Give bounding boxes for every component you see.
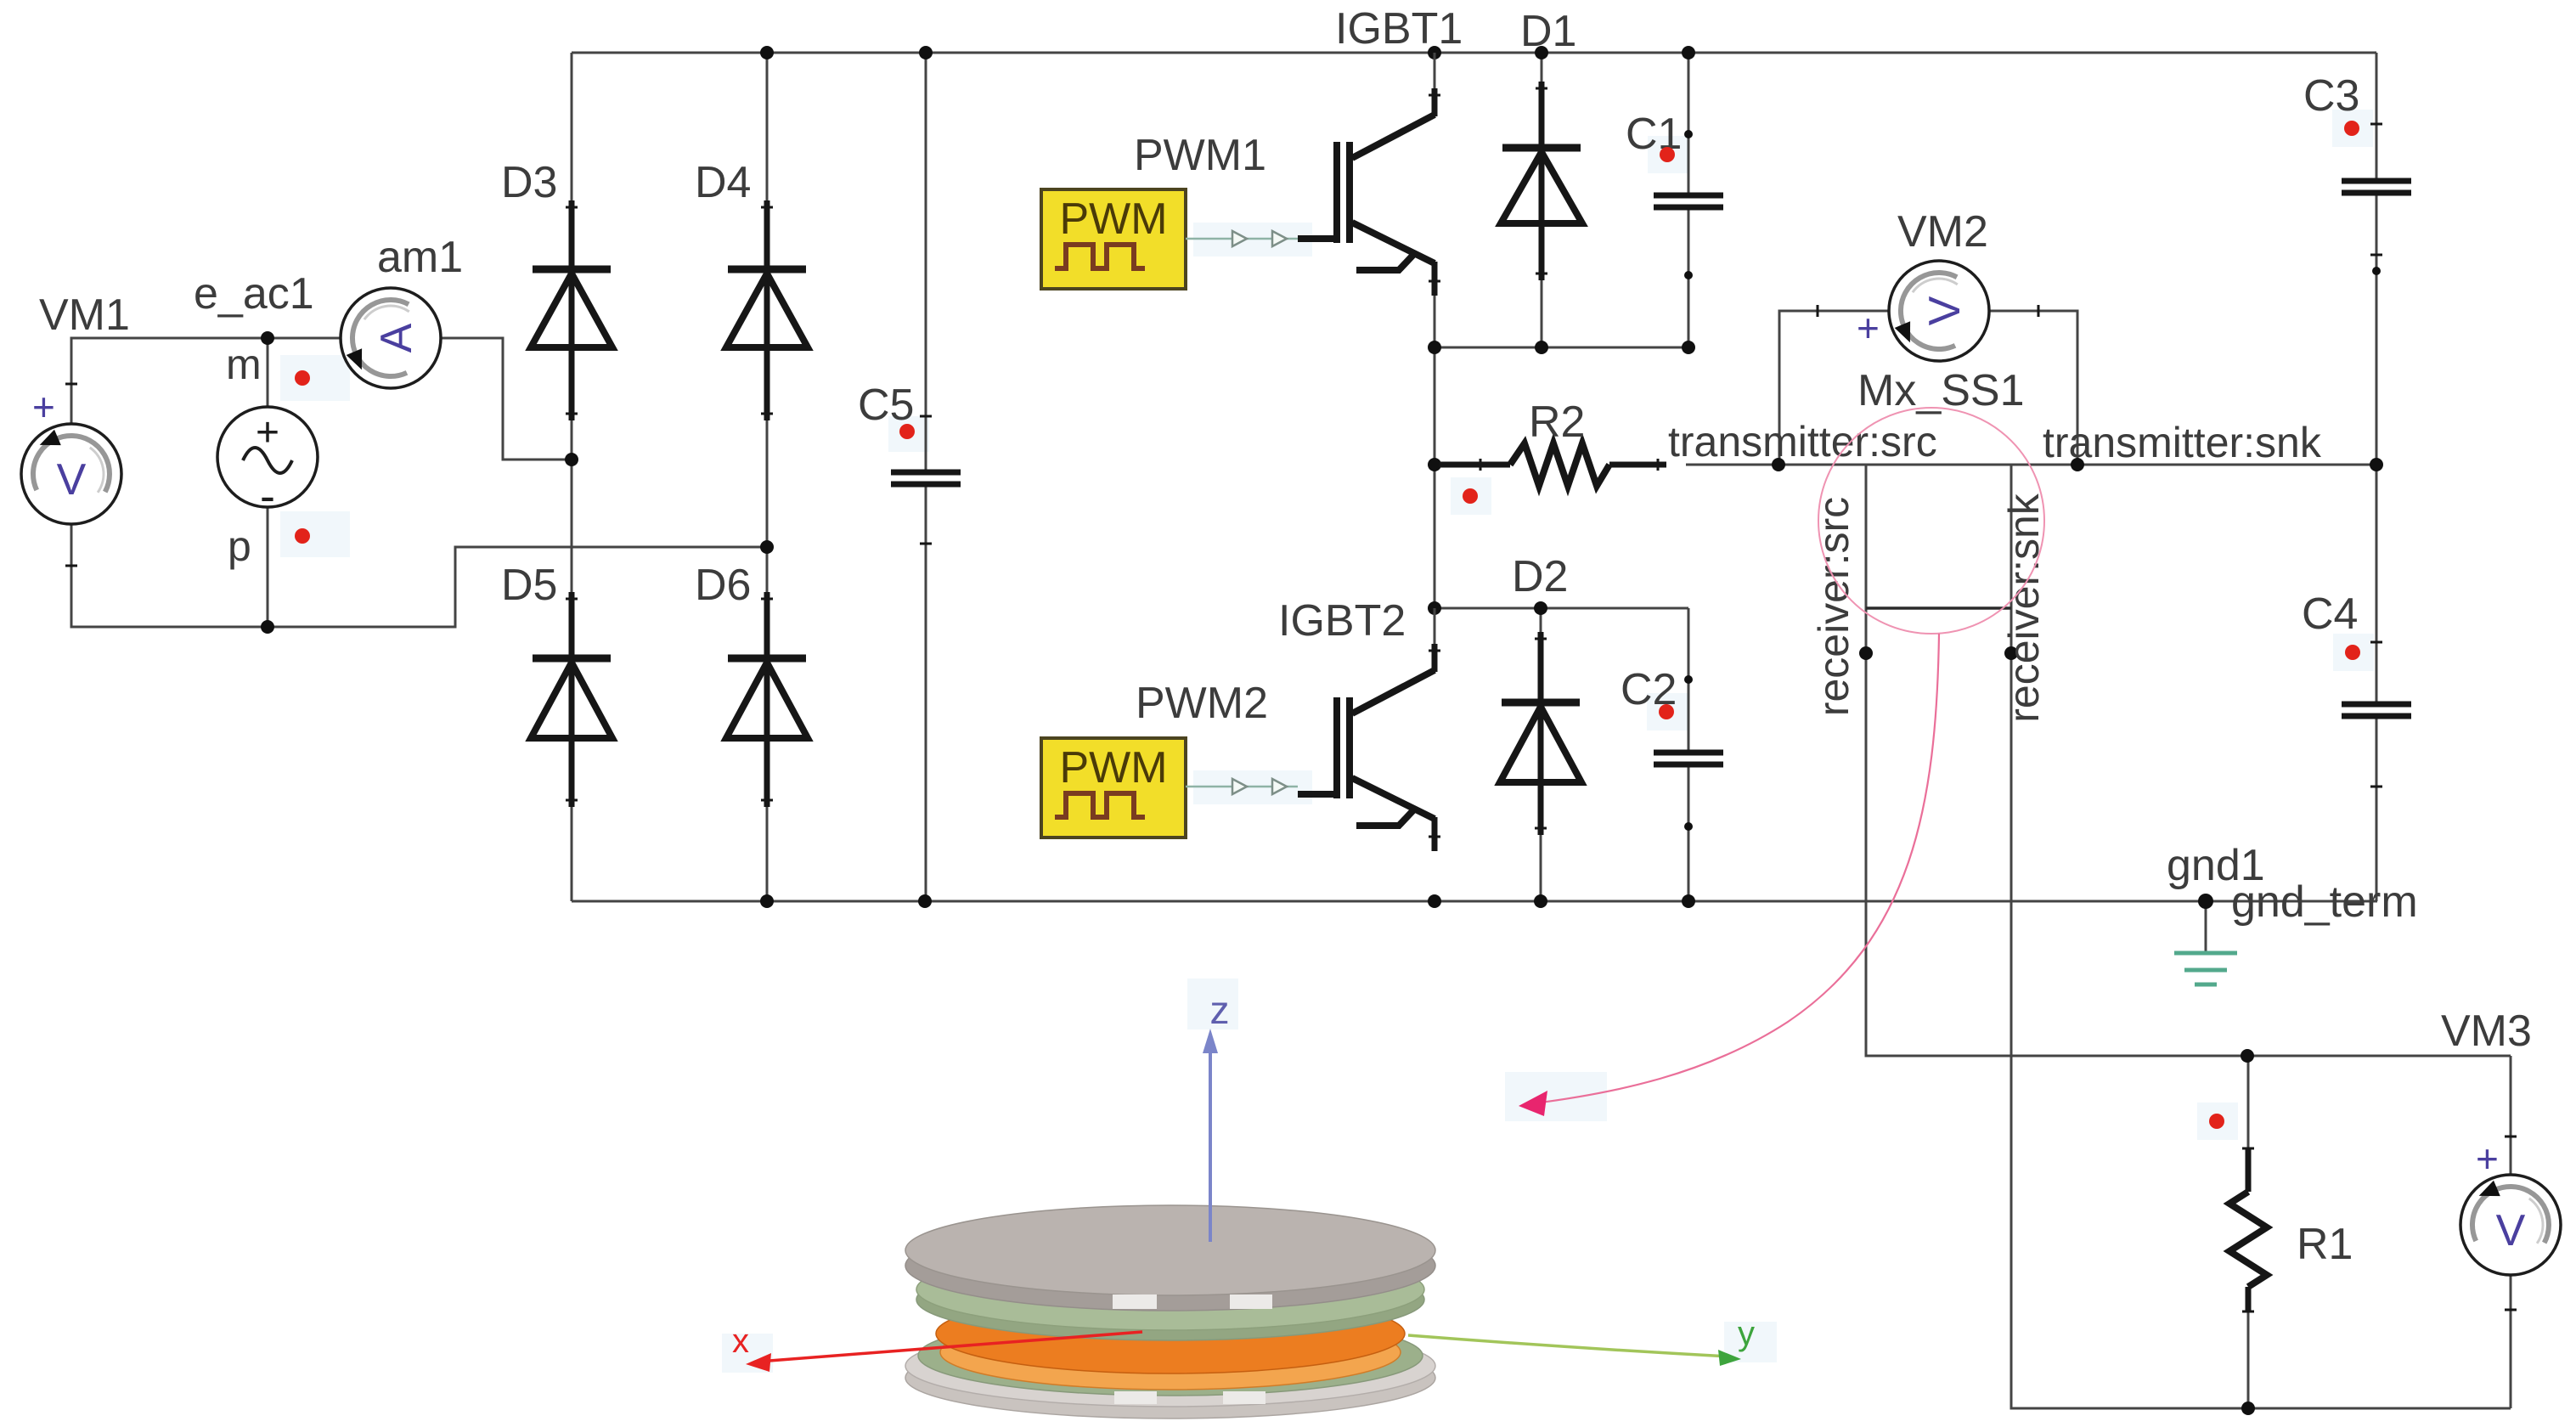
node R1 top — [2241, 1049, 2254, 1063]
node top bus / C1 — [1682, 46, 1695, 59]
coil lower green disc — [918, 1316, 1423, 1396]
z axis — [1209, 1048, 1212, 1242]
svg-text:IGBT2: IGBT2 — [1278, 596, 1406, 646]
wire VM2 left leg — [1779, 311, 1889, 465]
svg-text:VM1: VM1 — [39, 290, 130, 340]
svg-text:R2: R2 — [1529, 398, 1585, 447]
3D coil model: axes and disc stack — [732, 988, 1755, 1419]
x axis — [758, 1332, 1142, 1362]
diode D2 — [1500, 632, 1581, 835]
transistor IGBT1 — [1298, 53, 1440, 296]
node top bus / D1 — [1535, 46, 1548, 59]
meter VM2 — [1889, 261, 1989, 361]
coupling leader arrow to coil model — [1534, 634, 1939, 1103]
pin C4 red marker — [2345, 645, 2360, 660]
svg-text:am1: am1 — [377, 233, 463, 282]
node top bus / IGBT1 — [1428, 46, 1441, 59]
wire D1 branch — [1541, 53, 1543, 347]
svg-text:PWM: PWM — [1059, 195, 1167, 244]
wire R1 branch — [2247, 1056, 2250, 1189]
pin R2 red marker — [1463, 488, 1478, 504]
svg-text:D6: D6 — [695, 561, 751, 610]
wire PWM2 gate signal — [1186, 786, 1298, 788]
svg-text:PWM1: PWM1 — [1134, 131, 1266, 180]
node mid rail / D1 anode — [1535, 341, 1548, 354]
wire VM2 right leg — [1989, 311, 2077, 465]
svg-text:V: V — [57, 455, 87, 505]
svg-text:z: z — [1210, 988, 1230, 1032]
svg-text:VM2: VM2 — [1897, 207, 1988, 257]
resistor R2 — [1440, 443, 1666, 486]
wire gnd stem — [2205, 901, 2207, 951]
svg-text:D5: D5 — [501, 561, 557, 610]
node R2 left — [1428, 458, 1441, 471]
node bottom bus / D6 — [760, 894, 774, 908]
coil top grey disc — [905, 1221, 1435, 1311]
node bottom bus / IGBT2 emitter — [1428, 894, 1441, 908]
svg-text:y: y — [1738, 1315, 1755, 1352]
wire VM1 bottom — [71, 524, 268, 627]
wire D2 branch — [1540, 608, 1542, 901]
node m — [261, 331, 274, 345]
transistor IGBT2 — [1298, 608, 1440, 851]
svg-text:+: + — [2476, 1137, 2499, 1181]
diode D1 — [1501, 82, 1582, 280]
pin C2 red marker — [1659, 704, 1674, 719]
svg-text:C4: C4 — [2302, 589, 2358, 639]
coil bottom grey disc — [905, 1337, 1435, 1419]
svg-text:A: A — [372, 323, 421, 353]
node top bus / D4 — [760, 46, 774, 59]
svg-text:e_ac1: e_ac1 — [194, 269, 314, 319]
svg-text:D4: D4 — [695, 158, 751, 207]
highlight halos — [280, 355, 350, 401]
node gnd1 — [2198, 894, 2213, 909]
wire C4 branch — [2376, 465, 2378, 704]
capacitor C4 — [2342, 704, 2411, 716]
node bottom bus / C2 — [1682, 894, 1695, 908]
wire VM1 top — [71, 338, 268, 424]
svg-text:transmitter:src: transmitter:src — [1668, 418, 1937, 465]
wire am1 to bridge mid-left node — [441, 338, 572, 460]
svg-text:V: V — [2496, 1206, 2526, 1255]
node transmitter:src — [1772, 458, 1785, 471]
coil upper green disc — [916, 1259, 1424, 1340]
node bottom bus / D2 — [1534, 894, 1547, 908]
node mid rail / IGBT1 emitter — [1428, 341, 1441, 354]
wire C5 branch — [925, 53, 927, 472]
pin C1 red marker — [1660, 147, 1675, 162]
pin C5 red marker — [899, 424, 915, 439]
svg-text:p: p — [228, 522, 251, 570]
node bridge right mid — [760, 540, 774, 554]
y axis — [1408, 1335, 1729, 1356]
meter VM3 — [2460, 1175, 2561, 1275]
wire top bus — [572, 52, 2376, 54]
node IGBT2 collector — [1428, 601, 1441, 615]
wire m node to am1 — [268, 337, 341, 340]
wire receiver coupling bar — [1866, 606, 2011, 610]
node receiver pins — [1859, 646, 1873, 660]
diode D4 — [726, 200, 808, 420]
svg-text:VM3: VM3 — [2441, 1007, 2532, 1056]
PWM source block PWM1 — [1041, 189, 1186, 289]
wire bridge branch D4/D6 — [766, 53, 769, 901]
svg-text:PWM: PWM — [1059, 743, 1167, 792]
pin p red marker — [295, 528, 310, 544]
svg-text:D1: D1 — [1520, 7, 1576, 56]
svg-text:+: + — [256, 410, 279, 455]
diode D6 — [726, 592, 808, 807]
resistor R1 — [2229, 1148, 2267, 1312]
wire bottom bus — [572, 900, 2377, 903]
node R1 bottom — [2241, 1402, 2255, 1415]
svg-text:m: m — [226, 341, 262, 388]
svg-text:gnd_term: gnd_term — [2231, 877, 2418, 927]
svg-text:-: - — [260, 471, 275, 522]
node transmitter:snk — [2071, 458, 2084, 471]
svg-text:C5: C5 — [858, 381, 914, 430]
coupling highlight circle Mx_SS1 — [1818, 408, 2044, 634]
svg-text:+: + — [32, 385, 55, 429]
wire half-bridge mid junction row — [1435, 347, 1688, 349]
svg-text:+: + — [1857, 306, 1880, 350]
svg-text:R1: R1 — [2297, 1220, 2353, 1269]
svg-text:transmitter:snk: transmitter:snk — [2043, 419, 2322, 466]
svg-text:D2: D2 — [1512, 552, 1568, 601]
node mid rail / C1 bottom — [1682, 341, 1695, 354]
wire C1 branch — [1688, 53, 1690, 195]
wire receiver:src leg — [1866, 465, 2511, 1056]
svg-text:receiver:src: receiver:src — [1810, 497, 1857, 716]
node D2 cathode — [1534, 601, 1547, 615]
node C3/C4 tap — [2370, 458, 2383, 471]
wire IGBT2 collector row — [1435, 607, 1688, 610]
pin C3 red marker — [2344, 121, 2359, 136]
wire IGBT1 emitter to mid rail — [1434, 293, 1436, 608]
wire left bridge branch D3/D5 — [571, 53, 573, 901]
diode D5 — [531, 592, 612, 807]
wire C2 branch — [1688, 608, 1690, 753]
node bridge left mid — [565, 453, 578, 466]
svg-text:C3: C3 — [2303, 71, 2359, 121]
wire VM3 top lead — [2510, 1056, 2512, 1175]
svg-text:IGBT1: IGBT1 — [1335, 4, 1463, 54]
wire PWM1 gate signal — [1186, 238, 1298, 240]
wire p node to bridge mid-right node — [268, 547, 767, 627]
wire receiver:snk leg — [2011, 465, 2511, 1408]
node bottom bus / C5 — [918, 894, 932, 908]
pin R1 red marker — [2209, 1114, 2224, 1129]
pin m red marker — [295, 370, 310, 386]
node p — [261, 620, 274, 634]
meter am1 — [341, 288, 441, 388]
coil front notches — [1113, 1294, 1157, 1309]
svg-text:D3: D3 — [501, 158, 557, 207]
capacitor C3 — [2342, 181, 2411, 193]
capacitor C5 — [891, 472, 961, 484]
coil orange winding lower — [940, 1315, 1401, 1390]
capacitor C2 — [1654, 753, 1723, 764]
PWM source block PWM2 — [1041, 738, 1186, 838]
AC source e_ac1 — [217, 407, 318, 522]
wire e_ac1 p lead — [267, 507, 269, 627]
wire e_ac1 m lead — [267, 338, 269, 407]
wire transmitter rail — [1686, 464, 2376, 466]
capacitor C1 — [1654, 195, 1723, 207]
node top bus / C5 — [919, 46, 933, 59]
svg-text:V: V — [1920, 296, 1970, 325]
svg-text:x: x — [732, 1323, 749, 1360]
meter VM1 — [21, 424, 121, 524]
diode D3 — [531, 200, 612, 420]
wire C3 branch — [2376, 53, 2378, 181]
ground gnd1 / gnd_term — [2174, 953, 2237, 984]
coil orange winding upper — [936, 1294, 1405, 1373]
svg-text:PWM2: PWM2 — [1136, 679, 1268, 728]
wire VM3 bottom lead — [2510, 1275, 2512, 1408]
svg-text:receiver:snk: receiver:snk — [2000, 493, 2048, 723]
